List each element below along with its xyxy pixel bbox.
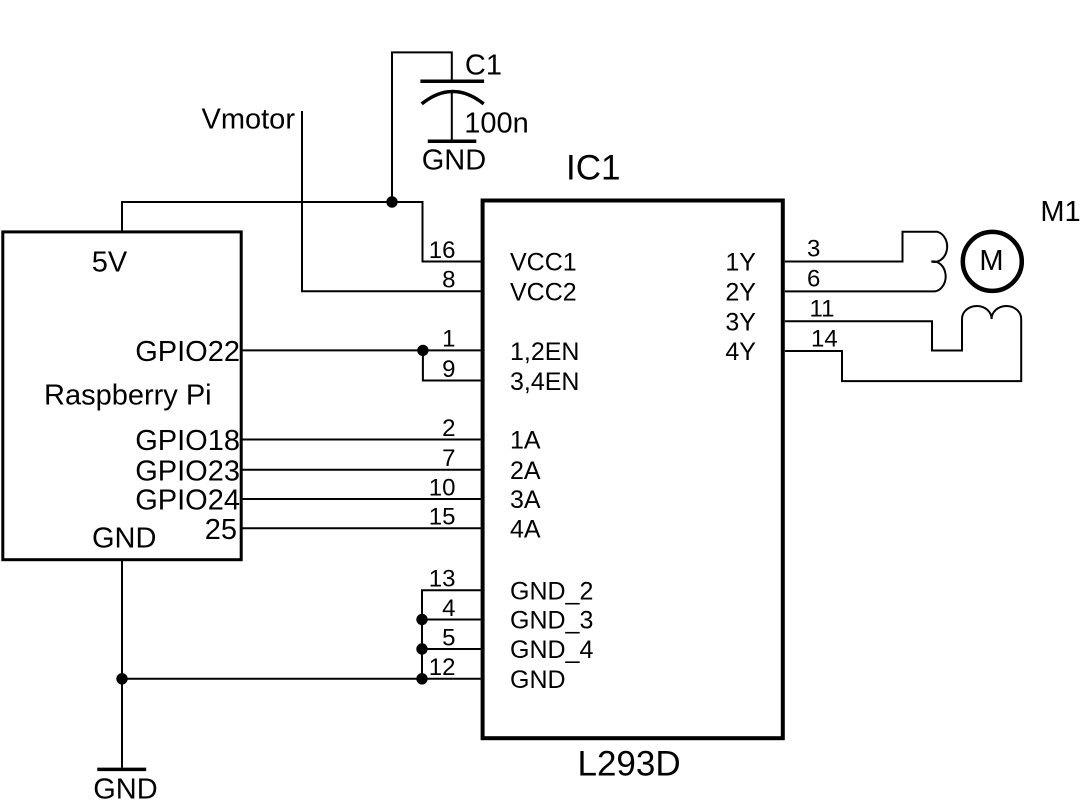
- svg-text:1: 1: [442, 326, 455, 353]
- svg-text:Raspberry Pi: Raspberry Pi: [44, 380, 212, 412]
- svg-text:9: 9: [442, 356, 455, 383]
- svg-text:3: 3: [807, 236, 820, 263]
- svg-text:2Y: 2Y: [725, 278, 756, 306]
- svg-text:2A: 2A: [510, 457, 541, 485]
- svg-text:GPIO22: GPIO22: [135, 336, 240, 368]
- svg-text:1A: 1A: [510, 427, 541, 455]
- svg-text:25: 25: [205, 514, 237, 546]
- svg-text:3A: 3A: [510, 486, 541, 514]
- svg-text:8: 8: [442, 267, 455, 294]
- svg-text:4A: 4A: [510, 515, 541, 543]
- svg-text:12: 12: [429, 654, 456, 681]
- svg-text:GND: GND: [92, 523, 156, 555]
- svg-text:2: 2: [442, 415, 455, 442]
- svg-text:GND: GND: [93, 773, 157, 805]
- svg-text:GND: GND: [422, 145, 486, 177]
- svg-text:VCC1: VCC1: [510, 249, 577, 277]
- svg-text:1Y: 1Y: [725, 249, 756, 277]
- svg-text:VCC2: VCC2: [510, 278, 577, 306]
- svg-text:15: 15: [429, 504, 456, 531]
- svg-text:1,2EN: 1,2EN: [510, 338, 579, 366]
- svg-text:5V: 5V: [92, 246, 128, 278]
- svg-text:11: 11: [810, 296, 835, 323]
- svg-text:4Y: 4Y: [725, 338, 756, 366]
- svg-text:100n: 100n: [464, 108, 529, 140]
- svg-text:6: 6: [807, 266, 820, 293]
- svg-text:5: 5: [442, 624, 455, 651]
- svg-text:3,4EN: 3,4EN: [510, 368, 579, 396]
- svg-text:GND_2: GND_2: [510, 577, 593, 605]
- svg-text:IC1: IC1: [566, 149, 620, 188]
- svg-text:L293D: L293D: [578, 744, 681, 783]
- svg-text:GND_4: GND_4: [510, 636, 593, 664]
- svg-text:M: M: [979, 245, 1003, 277]
- svg-text:10: 10: [429, 474, 456, 501]
- svg-text:GND: GND: [510, 666, 566, 694]
- svg-text:GND_3: GND_3: [510, 607, 593, 635]
- svg-text:GPIO24: GPIO24: [135, 485, 240, 517]
- svg-text:3Y: 3Y: [725, 308, 756, 336]
- svg-text:7: 7: [442, 445, 455, 472]
- svg-text:14: 14: [811, 326, 838, 353]
- svg-text:GPIO18: GPIO18: [135, 425, 240, 457]
- svg-text:M1: M1: [1040, 196, 1080, 228]
- svg-text:16: 16: [429, 237, 456, 264]
- svg-text:Vmotor: Vmotor: [202, 104, 296, 136]
- svg-text:GPIO23: GPIO23: [135, 455, 240, 487]
- svg-text:4: 4: [442, 595, 455, 622]
- svg-text:13: 13: [429, 566, 456, 593]
- svg-text:C1: C1: [465, 49, 502, 81]
